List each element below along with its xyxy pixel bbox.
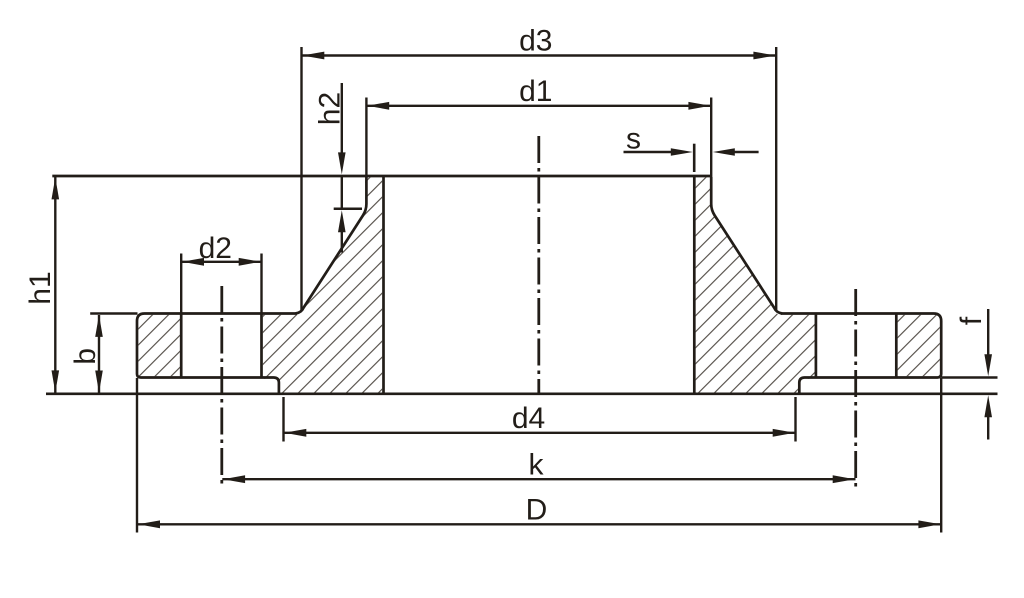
- dimension d2: [180, 254, 182, 314]
- hatch region right hub and flange: [696, 177, 815, 392]
- hatch region right flange outer: [898, 315, 940, 376]
- dimension D: [136, 378, 138, 533]
- svg-text:k: k: [529, 449, 545, 482]
- dimension f: [987, 309, 989, 356]
- dimension h1: [54, 177, 56, 393]
- svg-text:h1: h1: [24, 271, 57, 304]
- dimension k: [222, 478, 855, 480]
- flange bottom right f extension: [941, 376, 997, 378]
- bolt hole right wall right: [895, 314, 898, 378]
- dimension h2: [341, 83, 343, 154]
- dimension s: [624, 151, 673, 153]
- bolt hole left wall left: [180, 314, 183, 378]
- dimension d4: [282, 397, 284, 442]
- svg-text:D: D: [526, 493, 548, 526]
- bolt hole left wall right: [260, 314, 263, 378]
- dimension d3: [300, 47, 302, 311]
- svg-text:f: f: [955, 316, 988, 325]
- svg-text:d4: d4: [512, 402, 545, 435]
- hub outer profile right: [711, 177, 782, 314]
- raised face bottom line with h1 b f extensions: [46, 392, 998, 395]
- svg-text:d1: d1: [519, 75, 552, 108]
- flange right outline: [781, 314, 942, 394]
- svg-text:b: b: [69, 348, 102, 365]
- hub outer profile left: [296, 177, 367, 314]
- hatch region left flange outer: [138, 315, 180, 376]
- bore wall right: [693, 176, 696, 394]
- svg-text:s: s: [626, 122, 641, 155]
- bolt hole right wall left: [815, 314, 818, 378]
- svg-text:d3: d3: [519, 24, 552, 57]
- svg-text:h2: h2: [314, 92, 347, 125]
- wire: neck top surface with h1 extension: [52, 175, 711, 178]
- hatch region left hub and flange: [263, 177, 382, 392]
- svg-text:d2: d2: [199, 232, 232, 265]
- bore wall left: [382, 176, 385, 394]
- dimension b: [90, 312, 137, 314]
- centerline main: [537, 136, 540, 393]
- dimension d1: [365, 98, 367, 178]
- flange left outline: [137, 314, 297, 394]
- centerline left bolt hole: [220, 286, 223, 489]
- centerline right bolt hole: [854, 289, 857, 488]
